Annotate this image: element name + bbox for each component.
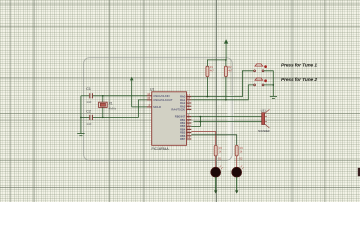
LED D1 [211, 165, 223, 177]
wire D2 cathode down [236, 177, 238, 191]
svg-text:1nF: 1nF [86, 122, 91, 126]
resistor R4 [235, 145, 238, 156]
svg-text:U1: U1 [150, 87, 154, 91]
svg-text:Press for Tune 1: Press for Tune 1 [281, 63, 317, 69]
wire OSC2 net to pin15 [93, 100, 147, 118]
crystal X1 [99, 102, 108, 107]
button SW1 [254, 64, 267, 72]
ground symbol right [270, 96, 277, 98]
ground symbol left [77, 134, 84, 136]
svg-text:4MHz: 4MHz [109, 107, 117, 111]
junction RA1-R2 [225, 99, 227, 101]
svg-text:RB7: RB7 [180, 137, 186, 141]
grid major horizontal line y4 [0, 3, 360, 5]
grid major vertical line x215.6 [215, 0, 217, 202]
LED D2 [232, 165, 244, 177]
wire R2 bottom lead [225, 77, 227, 100]
ground arrow D1 [214, 190, 217, 193]
pin stub OSC2 pin15 [147, 99, 152, 101]
wire R4 to LED D2 (red) [236, 156, 238, 168]
svg-text:4k7: 4k7 [228, 69, 233, 72]
svg-text:C1: C1 [86, 87, 91, 91]
svg-text:SOUNDER: SOUNDER [258, 130, 270, 133]
grid major vertical line x143.7 [143, 0, 145, 202]
grid major horizontal line y187.5 [0, 187, 360, 189]
svg-text:MCLR: MCLR [153, 105, 161, 109]
svg-text:1nF: 1nF [86, 100, 91, 104]
pin stub OSC1 pin16 [147, 95, 152, 97]
grid major horizontal line y113.5 [0, 113, 360, 115]
wire RB1 net to sounder bottom [194, 121, 262, 123]
grid major vertical line x34 [33, 0, 35, 202]
wire RB3 link vertical [191, 117, 200, 127]
junction OSC2-crystal [102, 117, 104, 119]
button SW2 [254, 78, 267, 86]
speaker LS1 [262, 109, 270, 128]
svg-text:OSC2/CLKOUT: OSC2/CLKOUT [153, 98, 173, 102]
svg-text:OSC1/CLKIN: OSC1/CLKIN [153, 94, 169, 98]
pin stub MCLR pin4 [147, 106, 152, 108]
pin names right column RA [171, 95, 185, 112]
wire button2 to ground rail [264, 84, 273, 86]
right edge clipped element [358, 168, 360, 176]
svg-text:Press for Tune 2: Press for Tune 2 [281, 77, 317, 83]
resistor R3 [214, 145, 217, 156]
wire crystal top lead [102, 96, 104, 102]
wire RA0 net to R1 and button1 [191, 71, 253, 97]
wire R1 top to R2 top rail [207, 60, 226, 66]
junction buttons ground [273, 84, 275, 86]
junction OSC1-crystal [102, 95, 104, 97]
grid major vertical line x10.5 [10, 0, 12, 202]
pin numbers right RA [187, 93, 190, 110]
junction RB0 net [200, 116, 202, 118]
grid major horizontal line y78 [0, 77, 360, 79]
wire button1 to ground rail [264, 71, 273, 97]
svg-text:C2: C2 [86, 109, 91, 113]
grid major horizontal line y120.3 [0, 119, 360, 121]
resistor R2 [224, 66, 227, 77]
svg-text:LS1: LS1 [261, 108, 267, 112]
wire RA1 net to R2 and button2 [191, 85, 253, 100]
wire R3 to LED D1 (red) [215, 156, 217, 168]
resistor R1 [206, 66, 209, 77]
watermark band lower [228, 95, 235, 170]
wire RB5 net to R4 [191, 135, 236, 146]
board outline rounded rect [84, 58, 233, 161]
pin names right column RB [175, 115, 186, 141]
svg-text:RA4/T0CKI: RA4/T0CKI [171, 108, 185, 112]
wire RB4 net to R3 (red) [191, 132, 215, 146]
junction RB1 net [200, 121, 202, 123]
wire OSC2 net left segment [81, 116, 89, 118]
junction VCC rail [225, 59, 227, 61]
wire D1 cathode down [215, 177, 217, 191]
junction RA0-R1 [207, 96, 209, 98]
wire MCLR net [132, 106, 147, 108]
grid major horizontal line y26.5 [0, 26, 360, 28]
pin stubs right RA0-RA4 [187, 97, 192, 110]
wire OSC1 net right segment [93, 95, 147, 97]
grid major horizontal line y160.3 [0, 159, 360, 161]
pin stubs right RB0-RB7 [187, 117, 192, 139]
power arrow VCC at MCLR [130, 77, 134, 107]
svg-text:4k7: 4k7 [210, 69, 215, 72]
capacitor C2 [90, 115, 93, 120]
watermark band upper [217, 40, 222, 105]
wire ground rail left [80, 96, 82, 134]
wire RB0 net to sounder top [191, 116, 261, 118]
wire OSC1 net left segment [81, 95, 89, 97]
power arrow VCC above R2 [224, 39, 228, 60]
pin numbers right RB [187, 113, 190, 139]
svg-text:X1: X1 [109, 102, 113, 106]
wire R1 bottom lead [206, 77, 208, 97]
ground arrow D2 [235, 190, 238, 193]
grid major vertical line x325 [324, 0, 326, 202]
grid major vertical line x109.5 [109, 0, 111, 202]
junction rail-C2 [80, 117, 82, 119]
grid major vertical line x292 [291, 0, 293, 202]
capacitor C1 [90, 93, 93, 98]
svg-text:PIC16F84A: PIC16F84A [152, 147, 170, 151]
wire crystal bottom lead [102, 107, 104, 117]
op-amp U1 PIC16F84A body [152, 92, 187, 146]
